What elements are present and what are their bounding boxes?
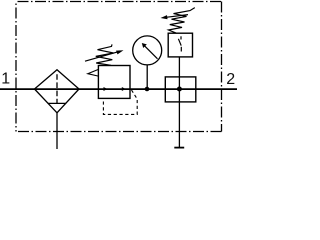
svg-text:1: 1 bbox=[1, 70, 10, 87]
svg-text:2: 2 bbox=[226, 71, 235, 88]
